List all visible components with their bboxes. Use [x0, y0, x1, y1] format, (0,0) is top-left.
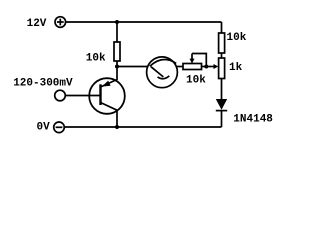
- resistor R1 10k body: [114, 42, 120, 61]
- svg-text:10k: 10k: [186, 74, 206, 86]
- terminal 0V (-): [54, 122, 65, 133]
- junction VR1 wiper tie: [204, 65, 208, 69]
- terminal 12V (+): [55, 17, 66, 28]
- junction node top: [115, 20, 119, 24]
- svg-text:10k: 10k: [86, 53, 106, 65]
- wire node A to meter: [117, 66, 148, 68]
- potentiometer VR1 10k body: [183, 64, 202, 70]
- wire top rail to R1: [116, 22, 118, 42]
- svg-text:1k: 1k: [229, 62, 243, 74]
- wire top rail: [66, 21, 222, 23]
- wire diode to bottom rail: [221, 111, 223, 127]
- potentiometer VR2 1k body: [219, 58, 225, 79]
- svg-text:1N4148: 1N4148: [233, 113, 273, 125]
- wire bottom rail: [65, 126, 222, 128]
- wire VR1 right lead: [202, 66, 214, 68]
- terminal input 120-300mV: [55, 90, 66, 101]
- node A junction: [115, 65, 119, 69]
- wire meter to potentiometer VR1: [177, 66, 184, 68]
- svg-text:10k: 10k: [227, 32, 247, 44]
- wire input to base: [65, 95, 100, 97]
- wire R2 to VR2: [221, 53, 223, 58]
- VR1 wiper arrow: [190, 54, 195, 64]
- wire right rail top: [221, 22, 223, 33]
- meter M1: [147, 57, 178, 88]
- wire node A to transistor collector: [116, 67, 118, 81]
- transistor Q1 (PNP): [89, 78, 125, 114]
- wire VR1 wiper loop: [192, 54, 206, 67]
- wiper arrow into VR2: [214, 64, 219, 69]
- wire emitter to bottom rail: [116, 110, 118, 127]
- resistor R2 10k body: [219, 33, 225, 53]
- svg-text:12V: 12V: [27, 18, 47, 30]
- wire R1 to node A: [116, 61, 118, 67]
- junction node bottom: [115, 125, 119, 129]
- wire VR2 to diode D1: [221, 79, 223, 100]
- diode D1: [216, 99, 227, 111]
- svg-text:0V: 0V: [37, 122, 51, 134]
- svg-text:120-300mV: 120-300mV: [13, 78, 73, 90]
